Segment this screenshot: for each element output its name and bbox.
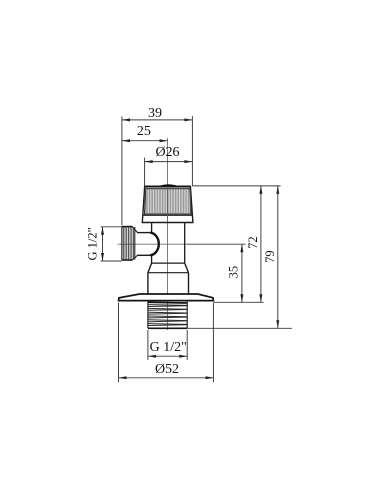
bottom tail thread G1/2: [148, 301, 187, 329]
mounting flange: [119, 294, 214, 301]
svg-text:35: 35: [226, 266, 240, 279]
vertical centerline: [167, 138, 169, 330]
dimension 39: [122, 106, 192, 225]
svg-text:79: 79: [263, 250, 277, 263]
svg-text:Ø52: Ø52: [155, 362, 179, 377]
dimension G 1/2 bottom: [148, 330, 187, 360]
dimension 79: [263, 186, 279, 328]
knurled grip hatch: [145, 189, 192, 214]
left port thread: [122, 227, 138, 260]
svg-text:G 1/2": G 1/2": [150, 340, 187, 355]
right extension lines: [187, 186, 292, 328]
left port smooth neck: [137, 233, 150, 256]
svg-text:39: 39: [148, 106, 162, 121]
dimension Ø26: [145, 145, 193, 186]
bonnet body column: [152, 223, 185, 264]
horizontal port centerline: [118, 243, 246, 245]
body flare shoulder: [148, 263, 189, 273]
svg-text:72: 72: [246, 236, 260, 249]
port dome arc: [150, 233, 159, 256]
valve handle knob: [142, 185, 193, 222]
dimension 25: [122, 124, 168, 142]
dimension G 1/2 left: [86, 227, 122, 261]
dimension Ø52: [119, 303, 214, 383]
dimension 72: [246, 186, 262, 302]
dimension 35: [226, 244, 243, 302]
centerline over handle: [167, 187, 169, 222]
svg-text:G 1/2": G 1/2": [86, 227, 100, 260]
svg-text:Ø26: Ø26: [155, 145, 179, 160]
hex section: [148, 273, 189, 294]
svg-text:25: 25: [137, 124, 151, 139]
